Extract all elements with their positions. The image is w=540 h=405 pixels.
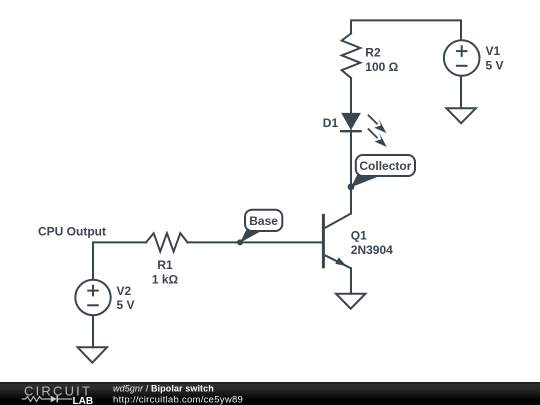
svg-text:LAB: LAB	[73, 396, 94, 405]
svg-text:http://circuitlab.com/ce5yw89: http://circuitlab.com/ce5yw89	[113, 394, 243, 405]
ground for Q1	[336, 294, 365, 309]
voltage source V1	[444, 40, 480, 76]
svg-text:100 Ω: 100 Ω	[365, 60, 398, 74]
LED D1 light arrow 1	[368, 115, 387, 133]
node base junction	[237, 239, 243, 245]
LED D1 light arrow 2	[368, 129, 387, 148]
node collector junction	[348, 183, 355, 190]
flag Base callout	[240, 210, 282, 243]
svg-text:wd5gnr / Bipolar switch: wd5gnr / Bipolar switch	[113, 383, 214, 393]
wire V1 to ground	[460, 77, 462, 109]
wire R2 to D1	[350, 78, 352, 113]
wire V2 to ground	[92, 316, 94, 347]
label Q1 value	[351, 229, 393, 257]
wire R1 to Q1 base	[188, 241, 323, 243]
wire top rail from R2 to V1	[351, 20, 461, 39]
ground for V1	[446, 108, 475, 123]
label R1 value	[152, 258, 179, 286]
label V2 value	[117, 284, 135, 312]
svg-text:2N3904: 2N3904	[351, 243, 393, 257]
label R2 value	[365, 46, 398, 74]
svg-text:Base: Base	[249, 214, 278, 228]
svg-text:R2: R2	[365, 46, 381, 60]
resistor R2	[342, 34, 361, 79]
logo schematic line: diode	[51, 396, 72, 403]
flag Collector callout	[351, 155, 415, 187]
label V1 value	[486, 44, 504, 72]
resistor R1	[146, 233, 188, 251]
wire D1 cathode to collector node	[350, 131, 352, 214]
svg-text:Collector: Collector	[359, 159, 411, 173]
svg-text:5 V: 5 V	[486, 59, 504, 73]
svg-text:CPU Output: CPU Output	[38, 224, 106, 238]
LED D1	[340, 113, 362, 131]
transistor Q1	[323, 214, 351, 269]
wire Q1 emitter to ground	[350, 268, 352, 293]
wire CPU output to R1	[93, 242, 146, 278]
svg-text:V1: V1	[486, 44, 501, 58]
svg-text:V2: V2	[117, 284, 132, 298]
svg-text:Q1: Q1	[351, 229, 367, 243]
svg-text:1 kΩ: 1 kΩ	[152, 273, 179, 287]
svg-text:R1: R1	[157, 258, 173, 272]
svg-text:5 V: 5 V	[117, 298, 135, 312]
voltage source V2	[75, 280, 110, 315]
svg-text:D1: D1	[323, 116, 339, 130]
ground for V2	[78, 347, 107, 362]
logo schematic line: resistor zigzag	[22, 397, 51, 402]
